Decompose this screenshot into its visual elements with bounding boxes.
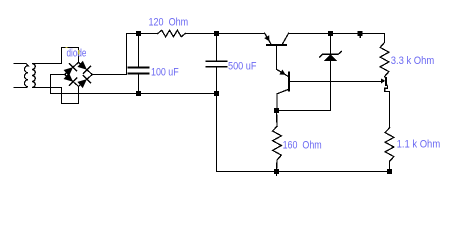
diode D2 (bridge, top node to right node) [77, 61, 92, 75]
resistor R1 120 Ohm [158, 30, 185, 37]
svg-text:3.3 k Ohm: 3.3 k Ohm [391, 55, 435, 67]
stub below node at 276 bottom rail [276, 174, 278, 175]
diode D4 (bridge, bottom node to right node) [77, 75, 92, 89]
transformer T1 primary winding [14, 64, 28, 88]
transformer T1 secondary winding [32, 64, 36, 88]
node: C2 top / top rail [214, 31, 219, 36]
node: zener cathode / top rail [328, 31, 333, 36]
resistor R4 160 Ohm [276, 111, 279, 127]
svg-text:diode: diode [67, 48, 87, 60]
wire: bottom rail [217, 171, 390, 173]
wire: Q1 collector along top rail to 3.3k corner [289, 34, 385, 43]
transistor Q3 (small PNP, error amplifier) [381, 77, 389, 128]
resistor R2 3.3 k Ohm [380, 43, 389, 77]
node: C1 top / top rail [136, 31, 141, 36]
node: C1 bottom / negative rail [136, 91, 141, 96]
wire: 1.1k bottom lead [389, 161, 391, 171]
wire: bridge right node up to top rail [92, 34, 158, 75]
capacitor C2 500 uF [207, 34, 227, 172]
svg-text:1.1 k Ohm: 1.1 k Ohm [397, 139, 441, 151]
diode D1 (bridge, left node to top node) [64, 62, 79, 76]
wire: Q2 base to Q3 emitter [289, 81, 382, 83]
wire: transformer secondary top to bridge top node [34, 48, 78, 64]
stub below node at 360 [359, 36, 361, 37]
resistor R3 1.1 k Ohm [385, 128, 394, 162]
wire: top rail from 120 Ohm to Q1 emitter [185, 33, 265, 35]
svg-text:160 Ohm: 160 Ohm [283, 140, 322, 152]
wire: transformer secondary bottom to bridge bottom node [34, 86, 78, 103]
node A: Q2 collector / zener / R4 160 [274, 108, 279, 113]
transistor Q2 (lower PNP) [277, 69, 289, 110]
node: negative rail / C2 branch [214, 91, 219, 96]
zener diode D5 [320, 34, 342, 111]
svg-text:120 Ohm: 120 Ohm [149, 17, 189, 29]
node: R4 bottom / bottom rail [274, 169, 279, 174]
xor highlight where diode label crosses wires [66, 47, 80, 55]
capacitor C1 100 uF [129, 34, 149, 94]
node: output tap on top rail [358, 31, 363, 36]
diode D3 (bridge, left node to bottom node) [64, 73, 79, 87]
svg-text:100 uF: 100 uF [151, 67, 179, 79]
svg-text:500 uF: 500 uF [228, 60, 257, 72]
transistor Q1 (upper PNP pass transistor) [264, 33, 288, 69]
wire: bridge left node to negative rail [51, 75, 217, 94]
node: R3 bottom / bottom rail [387, 169, 392, 174]
wire: zener anode to Q2 collector node [277, 110, 331, 112]
